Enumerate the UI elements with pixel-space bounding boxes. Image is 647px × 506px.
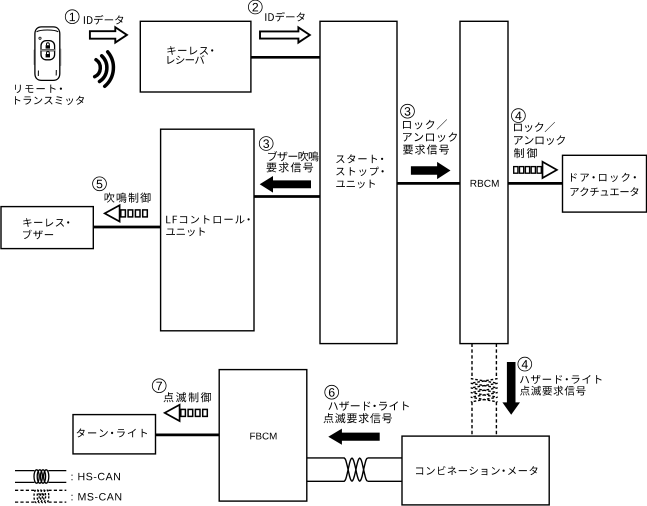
wire keyless buzzer to LF control bbox=[93, 226, 160, 229]
label keyless receiver line1 bbox=[167, 46, 213, 55]
label start-stop line1 bbox=[336, 154, 383, 163]
arrow hazard request 4 (down) bbox=[502, 362, 520, 415]
label start-stop line3 bbox=[336, 180, 375, 189]
label buzzer request line1 bbox=[268, 151, 319, 161]
label door lock line1 bbox=[571, 173, 636, 182]
marker 4 circled (hazard request) bbox=[518, 357, 532, 371]
marker 1 circled bbox=[65, 10, 79, 24]
wire MS-CAN bus RBCM to meter bbox=[471, 344, 498, 437]
label FBCM bbox=[250, 433, 276, 440]
label ID data 1 bbox=[84, 15, 123, 25]
label keyless buzzer line2 bbox=[23, 230, 53, 240]
block keyless buzzer bbox=[1, 207, 93, 249]
legend HS-CAN symbol bbox=[15, 470, 66, 483]
arrow ID data 1 bbox=[90, 27, 127, 42]
arrow buzzer request bbox=[260, 176, 311, 193]
label turn light bbox=[77, 428, 147, 437]
label LF control line2 bbox=[166, 228, 205, 237]
marker 6 circled bbox=[325, 385, 339, 399]
label combination meter bbox=[416, 466, 538, 475]
arrow blink control (digital) bbox=[165, 405, 208, 421]
label hazard request 6 line1 bbox=[329, 401, 409, 410]
label keyless receiver line2 bbox=[167, 55, 204, 64]
marker 7 circled bbox=[152, 379, 166, 393]
label lock control line2 bbox=[514, 135, 565, 145]
wire LF control to start-stop bbox=[254, 195, 320, 198]
marker 4 circled (lock control) bbox=[512, 109, 526, 123]
arrow lock request bbox=[411, 162, 451, 179]
label lock request line1 bbox=[403, 119, 447, 129]
label lock request line2 bbox=[403, 132, 457, 142]
marker 3 circled (buzzer request) bbox=[259, 137, 273, 151]
label start-stop line2 bbox=[336, 167, 384, 176]
label door lock line2 bbox=[571, 187, 639, 196]
label hazard request 4 line1 bbox=[520, 375, 602, 384]
block FBCM bbox=[219, 370, 307, 502]
legend MS-CAN text bbox=[72, 493, 122, 501]
arrow ID data 2 bbox=[260, 27, 310, 42]
block RBCM bbox=[460, 21, 508, 343]
marker 3 circled (lock request) bbox=[401, 104, 415, 118]
remote transmitter key fob bbox=[33, 27, 61, 81]
label hazard request 6 line2 bbox=[324, 413, 393, 423]
label keyless buzzer line1 bbox=[23, 218, 69, 227]
label lock request line3 bbox=[403, 144, 449, 154]
block combination meter bbox=[402, 436, 549, 505]
arrow hazard request 6 bbox=[328, 429, 379, 445]
label remote transmitter line1 bbox=[15, 85, 62, 93]
block keyless receiver bbox=[140, 21, 251, 92]
arrow buzzer control (digital) bbox=[105, 205, 148, 221]
label lock control line3 bbox=[514, 148, 537, 158]
block LF control unit bbox=[161, 129, 254, 331]
label RBCM bbox=[471, 180, 499, 187]
marker 2 circled bbox=[248, 0, 262, 14]
wire receiver to start-stop bbox=[251, 56, 320, 59]
legend HS-CAN text bbox=[72, 473, 121, 481]
block turn light bbox=[73, 415, 156, 454]
wire HS-CAN bus FBCM to meter bbox=[307, 458, 402, 481]
label LF control line1 bbox=[166, 215, 250, 223]
legend MS-CAN symbol bbox=[15, 490, 66, 503]
label ID data 2 bbox=[265, 12, 304, 22]
label remote transmitter line2 bbox=[15, 96, 84, 105]
block start-stop unit bbox=[320, 21, 397, 343]
label hazard request 4 line2 bbox=[520, 386, 586, 396]
wire start-stop to RBCM bbox=[397, 182, 460, 185]
marker 5 circled bbox=[93, 177, 107, 191]
wire RBCM to door lock actuator bbox=[508, 182, 563, 185]
wire turn light to FBCM bbox=[156, 434, 220, 437]
label buzzer request line2 bbox=[267, 162, 314, 172]
label lock control line1 bbox=[514, 122, 555, 132]
arrow lock control (digital) bbox=[514, 162, 557, 178]
label blink control bbox=[164, 392, 212, 402]
RF wave arcs bbox=[95, 52, 114, 86]
label buzzer control bbox=[105, 193, 151, 203]
block door lock actuator bbox=[563, 155, 647, 212]
